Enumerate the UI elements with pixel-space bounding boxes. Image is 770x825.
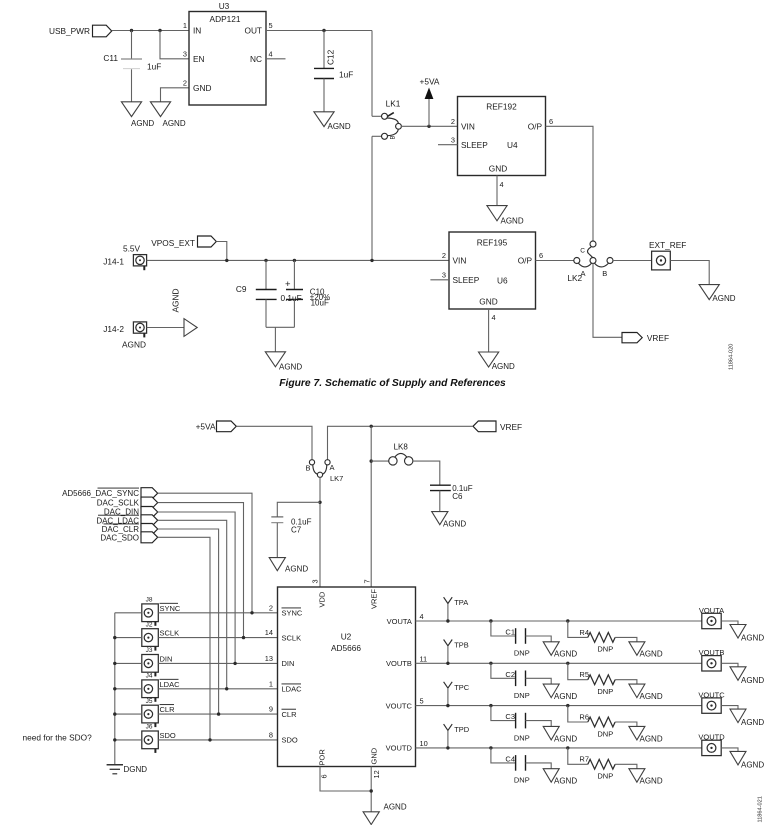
wire U2 VOUTD row [416, 747, 702, 749]
ground AGND after C4 [543, 769, 577, 786]
svg-text:DNP: DNP [597, 645, 613, 654]
svg-text:AGND: AGND [741, 634, 764, 643]
svg-text:J14-1: J14-1 [103, 257, 124, 267]
svg-text:DAC_SDO: DAC_SDO [100, 533, 139, 542]
svg-text:AGND: AGND [171, 289, 181, 313]
net flag VREF bottom [473, 421, 522, 432]
svg-text:DAC_SCLK: DAC_SCLK [97, 499, 140, 508]
capacitor C11 1uF [103, 53, 161, 72]
node junction TPD [446, 746, 449, 749]
net flag AD5666_DAC_SYNC [62, 488, 158, 499]
wire C4 to ground [526, 763, 552, 769]
ground AGND after R4 [629, 642, 663, 659]
svg-text:AGND: AGND [554, 650, 577, 659]
svg-text:VREF: VREF [500, 422, 522, 432]
wire bus to J5 [115, 713, 142, 715]
wire REF195 O/P to LK2 [536, 260, 575, 262]
svg-text:VREF: VREF [370, 589, 379, 609]
svg-text:7: 7 [363, 579, 372, 583]
svg-text:EXT_REF: EXT_REF [649, 240, 686, 250]
wire +5VA to LK7 B [236, 426, 312, 460]
wire U2 GND pin [370, 767, 372, 812]
svg-text:C9: C9 [236, 284, 247, 294]
svg-text:NC: NC [250, 54, 262, 64]
svg-text:J6: J6 [146, 724, 153, 731]
wire DAC_CLR to CLR row [158, 529, 219, 714]
svg-text:O/P: O/P [518, 255, 533, 265]
wire C2 branch [491, 663, 516, 678]
svg-text:DNP: DNP [514, 733, 530, 742]
svg-text:2: 2 [269, 603, 273, 612]
wire bus to J3 [115, 662, 142, 664]
svg-text:EN: EN [193, 54, 205, 64]
wire R7 to ground [615, 764, 637, 768]
svg-text:VOUTD: VOUTD [386, 744, 413, 753]
wire C7 top lead [277, 502, 320, 516]
wire J6 to U2 SDO [158, 739, 277, 741]
capacitor C1 DNP [505, 628, 529, 658]
node junction CLR [217, 712, 220, 715]
connector VOUTC [698, 690, 725, 713]
svg-text:TPC: TPC [454, 683, 470, 692]
svg-text:AGND: AGND [554, 777, 577, 786]
wire DAC_LDAC to LDAC row [158, 520, 227, 689]
wire DAC_DIN to DIN row [158, 512, 235, 663]
svg-text:O/P: O/P [528, 121, 543, 131]
node junction bus DIN [113, 662, 116, 665]
svg-text:11: 11 [420, 654, 428, 663]
svg-text:U3: U3 [219, 1, 230, 11]
svg-text:DNP: DNP [514, 691, 530, 700]
wire J5 to U2 CLR [158, 713, 277, 715]
svg-text:AGND: AGND [640, 734, 663, 743]
svg-text:REF192: REF192 [486, 102, 517, 112]
net flag VREF top [622, 333, 669, 344]
node junction R4 tap [566, 619, 569, 622]
capacitor C6 0.1uF [430, 484, 473, 501]
svg-text:SDO: SDO [282, 736, 298, 745]
svg-text:VIN: VIN [453, 255, 467, 265]
wire LK1 bottom lead [372, 135, 382, 137]
svg-text:VREF: VREF [647, 333, 669, 343]
net flag DAC_SDO [100, 532, 157, 543]
node junction SCLK [242, 636, 245, 639]
svg-text:B: B [391, 135, 397, 139]
wire ground bus vertical [114, 613, 116, 765]
wire C4 branch [491, 748, 516, 763]
svg-text:AGND: AGND [122, 340, 146, 350]
svg-text:AD5666_DAC_SYNC: AD5666_DAC_SYNC [62, 489, 139, 498]
svg-text:J2: J2 [146, 621, 153, 628]
ground AGND under C9 C10 [265, 352, 302, 372]
connector EXT_REF [649, 240, 686, 270]
connector J3 DIN [142, 647, 173, 676]
svg-text:SYNC: SYNC [282, 609, 303, 618]
svg-text:C6: C6 [452, 492, 463, 501]
svg-text:11864-020: 11864-020 [729, 344, 735, 370]
svg-text:R6: R6 [579, 712, 589, 721]
svg-text:C12: C12 [326, 49, 336, 65]
ground AGND under REF195 [479, 352, 516, 371]
wire J3 to U2 DIN [158, 662, 277, 664]
svg-text:AGND: AGND [554, 734, 577, 743]
svg-text:VDD: VDD [318, 591, 327, 607]
wire U2 VOUTB row [416, 662, 702, 664]
svg-text:DIN: DIN [160, 654, 173, 663]
svg-text:6: 6 [539, 251, 543, 260]
svg-text:AGND: AGND [640, 692, 663, 701]
svg-text:2: 2 [442, 251, 446, 260]
node junction bus SDO [113, 738, 116, 741]
svg-text:C2: C2 [505, 670, 515, 679]
stub NC pin [266, 58, 286, 60]
capacitor C3 DNP [505, 712, 529, 742]
node junction VPOS_EXT rail [225, 259, 228, 262]
node junction DIN [233, 662, 236, 665]
test point TPA [444, 597, 469, 621]
wire REF195 GND lead [488, 309, 490, 352]
ground AGND at EXT_REF [699, 285, 736, 303]
wire U2 VOUTA row [416, 620, 702, 622]
svg-text:AGND: AGND [501, 217, 524, 226]
svg-text:3: 3 [451, 136, 455, 145]
wire LK8 right to C6 [413, 461, 440, 485]
wire REF192 GND lead [496, 176, 498, 206]
wire C7 bottom lead [276, 523, 278, 558]
node junction bus LDAC [113, 687, 116, 690]
svg-text:CLR: CLR [282, 710, 298, 719]
svg-text:AGND: AGND [741, 718, 764, 727]
wire LK8 left lead [371, 460, 389, 462]
wire C3 to ground [526, 721, 552, 727]
svg-text:REF195: REF195 [477, 237, 508, 247]
svg-text:J5: J5 [146, 698, 153, 705]
svg-text:DNP: DNP [597, 687, 613, 696]
node junction TPC [446, 704, 449, 707]
svg-text:GND: GND [489, 163, 507, 173]
node junction C7 tap [318, 501, 321, 504]
wire R5 to ground [615, 680, 637, 684]
svg-text:CLR: CLR [160, 705, 176, 714]
ground AGND under C7 [269, 558, 308, 574]
connector J6 SDO [142, 724, 176, 753]
svg-text:4: 4 [492, 313, 496, 322]
svg-text:DNP: DNP [597, 729, 613, 738]
wire VOUTA to ground [721, 621, 738, 625]
ground AGND after VOUTC [730, 709, 764, 727]
node junction TPA [446, 619, 449, 622]
svg-text:GND: GND [370, 747, 379, 764]
svg-text:OUT: OUT [244, 26, 262, 36]
wire C10 bottom lead [293, 299, 295, 327]
svg-text:TPB: TPB [454, 641, 469, 650]
svg-text:Figure 7. Schematic of Supply: Figure 7. Schematic of Supply and Refere… [279, 378, 506, 389]
node junction R5 tap [566, 662, 569, 665]
capacitor C12 1uF [314, 49, 353, 79]
svg-text:TPD: TPD [454, 725, 470, 734]
node junction SYNC [250, 611, 253, 614]
svg-text:5: 5 [420, 697, 424, 706]
wire U3 OUT net [266, 30, 372, 32]
wire C1 to ground [526, 636, 552, 642]
node junction C11 tap [130, 29, 133, 32]
svg-text:VOUTA: VOUTA [387, 617, 412, 626]
svg-text:SLEEP: SLEEP [453, 275, 480, 285]
net flag DAC_DIN [104, 507, 158, 518]
wire DAC_SYNC to SYNC row [158, 493, 252, 613]
svg-text:3: 3 [311, 579, 320, 583]
net flag DAC_LDAC [96, 515, 157, 526]
wire VREF down to U2 pin 7 [370, 426, 372, 587]
connector J5 CLR [142, 698, 175, 727]
svg-text:6: 6 [549, 117, 553, 126]
wire VREF to LK7 A [328, 426, 474, 460]
svg-text:AGND: AGND [741, 676, 764, 685]
node junction LK8 tap [370, 459, 373, 462]
svg-text:R5: R5 [579, 670, 589, 679]
wire U3 GND pin lead [161, 88, 190, 102]
svg-text:DNP: DNP [597, 772, 613, 781]
ground AGND under C12 [314, 112, 351, 131]
wire OUT down to LK1 [371, 31, 373, 117]
node junction POR GND [370, 789, 373, 792]
wire J4 to U2 LDAC [158, 688, 277, 690]
node junction VREF vertical [370, 425, 373, 428]
svg-text:1: 1 [269, 679, 273, 688]
wire C6 bottom lead [439, 491, 441, 512]
svg-text:4: 4 [420, 612, 424, 621]
node junction +5VA stem [427, 125, 430, 128]
resistor R7 DNP [579, 755, 615, 781]
svg-text:5: 5 [269, 21, 273, 30]
ground AGND under C6 [432, 512, 467, 529]
svg-text:AGND: AGND [285, 564, 308, 573]
svg-text:12: 12 [372, 770, 381, 778]
test point TPB [444, 640, 469, 664]
wire LK2 center to VREF [593, 263, 622, 337]
svg-text:AGND: AGND [443, 520, 466, 529]
svg-text:2: 2 [183, 79, 187, 88]
svg-text:U4: U4 [507, 140, 518, 150]
connector J14-1 [103, 255, 146, 271]
capacitor C7 0.1uF [271, 517, 311, 535]
reference U6 REF195 [449, 232, 536, 309]
wire DAC_SCLK to SCLK row [158, 503, 244, 638]
wire C9 bottom lead [265, 299, 267, 327]
svg-text:C1: C1 [505, 628, 515, 637]
capacitor C10 10uF polarized [285, 279, 330, 307]
svg-text:AGND: AGND [384, 802, 407, 811]
node junction C2 tap [489, 662, 492, 665]
wire VOUTD to ground [721, 748, 738, 752]
svg-text:J8: J8 [146, 597, 153, 604]
stub REF192 SLEEP [438, 144, 458, 146]
wire REF192 O/P to LK2 [546, 126, 594, 241]
wire R4 branch [568, 621, 588, 637]
wire U2 VOUTC row [416, 705, 702, 707]
ground AGND after R6 [629, 726, 663, 743]
svg-text:AGND: AGND [554, 692, 577, 701]
capacitor C4 DNP [505, 755, 529, 785]
svg-text:R7: R7 [579, 755, 589, 764]
connector J14-2 [103, 322, 146, 350]
ground AGND under U2 [363, 802, 407, 824]
ground AGND after VOUTA [730, 625, 764, 643]
svg-text:DNP: DNP [514, 649, 530, 658]
svg-text:SYNC: SYNC [160, 604, 181, 613]
svg-text:VIN: VIN [461, 121, 475, 131]
svg-text:C4: C4 [505, 755, 515, 764]
svg-text:11864-021: 11864-021 [758, 796, 764, 822]
svg-text:AGND: AGND [640, 777, 663, 786]
node junction C1 tap [489, 619, 492, 622]
svg-text:AGND: AGND [131, 119, 154, 128]
wire C10 top lead [293, 260, 295, 289]
wire R4 to ground [615, 637, 637, 641]
svg-text:3: 3 [183, 50, 187, 59]
resistor R6 DNP [579, 712, 615, 738]
test point TPD [444, 724, 470, 748]
svg-text:B: B [602, 269, 607, 278]
svg-text:C7: C7 [291, 526, 302, 535]
wire bus to J8 [115, 612, 142, 614]
svg-text:POR: POR [318, 749, 327, 766]
wire R6 branch [568, 706, 588, 722]
node junction C3 tap [489, 704, 492, 707]
svg-text:1: 1 [183, 21, 187, 30]
power +5VA [420, 77, 440, 127]
wire VPOS_EXT drop [216, 242, 227, 261]
node junction C12 tap [322, 29, 325, 32]
jumper LK2 [567, 241, 613, 283]
node junction C4 tap [489, 746, 492, 749]
net flag DAC_SCLK [97, 497, 158, 508]
wire EN net [160, 31, 189, 59]
svg-text:+5VA: +5VA [196, 421, 216, 431]
wire R5 branch [568, 663, 588, 679]
jumper LK7 [305, 460, 343, 483]
svg-text:+: + [285, 279, 291, 290]
svg-text:9: 9 [269, 705, 273, 714]
svg-text:2: 2 [451, 117, 455, 126]
svg-text:VOUTC: VOUTC [386, 701, 413, 710]
wire VOUTC to ground [721, 706, 738, 710]
connector VOUTA [699, 606, 724, 629]
svg-text:U6: U6 [497, 276, 508, 286]
wire cap bottoms join [266, 326, 294, 328]
svg-text:5.5V: 5.5V [123, 244, 141, 254]
wire EXT_REF to AGND [670, 261, 709, 285]
svg-text:AGND: AGND [279, 362, 302, 371]
ground AGND after R5 [629, 684, 663, 701]
node junction bus CLR [113, 712, 116, 715]
svg-text:J14-2: J14-2 [103, 324, 124, 334]
svg-text:LK2: LK2 [567, 273, 582, 283]
wire LK2 B to EXT_REF [613, 260, 652, 262]
capacitor C2 DNP [505, 670, 529, 700]
svg-text:14: 14 [265, 628, 273, 637]
svg-text:AGND: AGND [640, 650, 663, 659]
ground DGND [107, 765, 148, 774]
wire AGND stem caps [274, 327, 276, 352]
power flag +5VA bottom [196, 421, 237, 432]
capacitor C9 0.1uF [236, 284, 302, 303]
svg-text:R4: R4 [579, 628, 589, 637]
ground AGND after C3 [543, 726, 577, 743]
svg-text:C3: C3 [505, 712, 515, 721]
svg-text:AGND: AGND [328, 122, 351, 131]
ground AGND under U3 GND [150, 102, 185, 128]
net flag USB_PWR [49, 25, 112, 37]
svg-text:C: C [580, 248, 585, 255]
svg-text:GND: GND [479, 297, 497, 307]
svg-text:U2: U2 [341, 632, 352, 642]
svg-text:6: 6 [320, 774, 329, 778]
svg-text:USB_PWR: USB_PWR [49, 26, 90, 36]
node junction bus SCLK [113, 636, 116, 639]
svg-text:AGND: AGND [741, 761, 764, 770]
wire C12 top lead [323, 31, 325, 69]
node junction TPB [446, 662, 449, 665]
resistor R4 DNP [579, 628, 615, 654]
ground AGND after C1 [543, 642, 577, 659]
svg-text:SCLK: SCLK [282, 633, 302, 642]
wire VOUTB to ground [721, 663, 738, 667]
svg-text:AGND: AGND [163, 119, 186, 128]
ground AGND after VOUTB [730, 667, 764, 685]
svg-text:GND: GND [193, 83, 211, 93]
wire C2 to ground [526, 678, 552, 684]
svg-text:LK8: LK8 [394, 443, 409, 452]
wire J8 to U2 SYNC [158, 612, 277, 614]
wire LK1 top lead [372, 115, 382, 117]
node junction LK1 rail [370, 259, 373, 262]
wire 5.5V rail [147, 259, 449, 261]
svg-text:LDAC: LDAC [160, 680, 181, 689]
jumper LK1 [382, 99, 402, 140]
connector J4 LDAC [142, 673, 180, 702]
svg-text:4: 4 [500, 180, 504, 189]
stub REF195 SLEEP [430, 279, 449, 281]
wire USB_PWR to U3 IN [112, 30, 189, 32]
svg-text:need for the SDO?: need for the SDO? [23, 733, 93, 743]
net flag DAC_CLR [102, 524, 158, 535]
wire C3 branch [491, 706, 516, 721]
node junction R7 tap [566, 746, 569, 749]
svg-text:0.1uF: 0.1uF [281, 293, 302, 303]
svg-text:DNP: DNP [514, 776, 530, 785]
reference U4 REF192 [458, 97, 546, 176]
svg-text:J3: J3 [146, 647, 153, 654]
svg-text:LK1: LK1 [386, 99, 401, 109]
svg-text:VPOS_EXT: VPOS_EXT [151, 238, 195, 248]
svg-text:DGND: DGND [124, 765, 148, 774]
wire C11 top lead [131, 31, 133, 59]
wire LK1 to REF192 VIN [401, 125, 458, 127]
svg-text:VOUTB: VOUTB [386, 659, 412, 668]
ground AGND after R7 [629, 769, 663, 786]
node junction LDAC [225, 687, 228, 690]
svg-text:TPA: TPA [454, 598, 468, 607]
svg-text:A: A [330, 463, 335, 472]
wire U2 POR pin [320, 767, 371, 792]
connector VOUTD [698, 733, 725, 756]
svg-text:3: 3 [442, 271, 446, 280]
wire C11 bottom lead [131, 69, 133, 102]
resistor R5 DNP [579, 670, 615, 696]
regulator U3 ADP121 [189, 1, 266, 105]
svg-text:1uF: 1uF [147, 61, 161, 71]
